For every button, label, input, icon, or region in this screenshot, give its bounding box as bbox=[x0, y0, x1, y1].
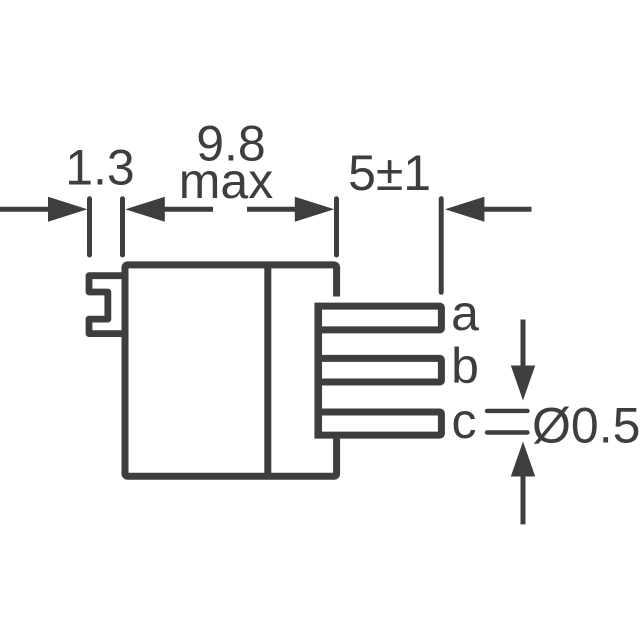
extension line at lead ends bbox=[439, 199, 444, 292]
pin b outline bbox=[318, 358, 441, 382]
extension line at body right edge bbox=[334, 199, 339, 255]
svg-text:b: b bbox=[451, 338, 479, 394]
component body outline bbox=[125, 265, 337, 476]
dimension 9.8 right arrowhead bbox=[295, 197, 335, 222]
dimension 9.8 left arrowhead bbox=[125, 197, 165, 222]
svg-text:max: max bbox=[179, 153, 273, 209]
pin a outline bbox=[318, 306, 441, 330]
diameter leader lower line bbox=[521, 477, 526, 525]
dimension 1.3 left arrowhead bbox=[48, 197, 88, 222]
svg-text:Ø0.5: Ø0.5 bbox=[532, 398, 640, 454]
svg-text:a: a bbox=[451, 285, 479, 341]
dimension 5±1 right tail line bbox=[484, 207, 532, 212]
body internal divider line bbox=[264, 265, 271, 476]
adjustment screw slot profile bbox=[89, 276, 125, 334]
lead frame white mask bbox=[315, 297, 446, 439]
dimension 5±1 right arrowhead bbox=[445, 197, 485, 222]
pin c outline bbox=[318, 412, 441, 435]
svg-text:1.3: 1.3 bbox=[65, 140, 135, 196]
dimension 9.8 right line segment bbox=[247, 207, 295, 212]
diameter tick at lead c bottom bbox=[487, 430, 528, 434]
diameter leader upper line bbox=[521, 320, 526, 368]
lead standoff vertical bar bbox=[314, 303, 322, 439]
diameter tick at lead c top bbox=[487, 409, 528, 413]
svg-text:c: c bbox=[452, 393, 477, 449]
dimension 1.3 left arrow line bbox=[0, 207, 50, 212]
dimension 9.8 left line segment bbox=[164, 207, 213, 212]
diameter leader up arrowhead bbox=[511, 442, 535, 477]
extension line at body left edge bbox=[120, 199, 125, 255]
svg-text:5±1: 5±1 bbox=[348, 145, 431, 201]
diameter leader down arrowhead bbox=[511, 366, 535, 401]
extension line at slot left face bbox=[87, 199, 92, 255]
